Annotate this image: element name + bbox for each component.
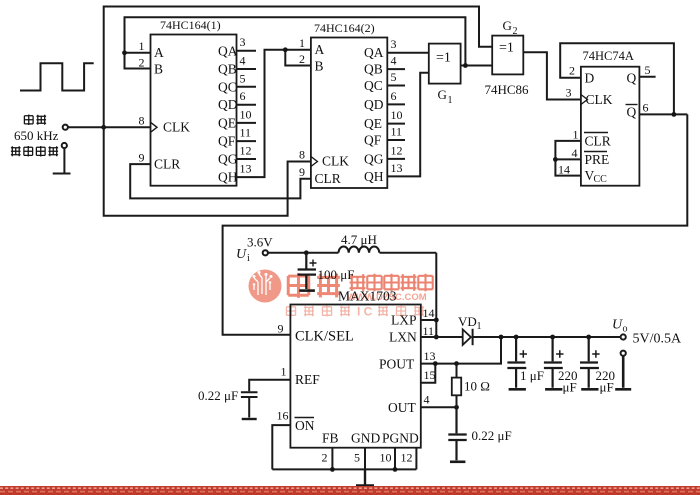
svg-text:12: 12 <box>240 144 252 158</box>
U2 CLK triangle <box>311 157 318 167</box>
U2 output stubs <box>387 69 405 159</box>
wire: clock bus down to U2 CLK pin 8 <box>104 127 311 215</box>
node: PGND bus junction <box>393 467 398 472</box>
svg-text:μF: μF <box>600 380 614 395</box>
svg-text:QG: QG <box>218 152 238 167</box>
svg-text:I C: I C <box>357 305 373 319</box>
svg-text:11: 11 <box>240 126 252 140</box>
label 方波信号 (square wave signal) <box>11 146 58 157</box>
wire: Ui to inductor L1 <box>268 252 436 254</box>
svg-text:0.22 μF: 0.22 μF <box>198 388 238 403</box>
svg-text:i: i <box>247 253 250 264</box>
xor gate G2 <box>492 36 523 75</box>
svg-text:15: 15 <box>424 368 436 382</box>
wire: PGND pin10 lead <box>394 448 396 470</box>
svg-text:QC: QC <box>364 78 383 93</box>
wire: U1 CLR to U2 CLR (pin 9 bus) <box>130 164 311 198</box>
svg-text:A: A <box>315 42 325 57</box>
node: resistor tap <box>454 361 459 366</box>
svg-text:4: 4 <box>572 146 578 160</box>
wire: U2 QA pin3 to G1 upper input <box>387 52 429 54</box>
svg-text:FB: FB <box>322 431 339 446</box>
svg-text:Q: Q <box>627 105 637 120</box>
watermark 电子市场网 text <box>350 274 433 291</box>
svg-text:A: A <box>154 45 164 60</box>
node: PRE tie <box>553 157 558 162</box>
svg-text:QC: QC <box>218 79 237 94</box>
node: C4 junction <box>514 335 519 340</box>
svg-text:74HC164(1): 74HC164(1) <box>160 18 221 32</box>
svg-text:11: 11 <box>423 324 435 338</box>
output return terminal <box>621 351 626 356</box>
input terminal (return) <box>62 143 67 148</box>
svg-text:74HC86: 74HC86 <box>485 82 530 97</box>
svg-text:=1: =1 <box>499 41 514 56</box>
wire: G1 output feedback to U1 A/B <box>125 17 466 68</box>
capacitor C2 0.22uF at OUT <box>448 407 466 462</box>
svg-text:POUT: POUT <box>379 356 415 371</box>
svg-text:2: 2 <box>139 56 145 70</box>
wire: input to U1 CLK <box>68 126 151 128</box>
svg-text:MAX1703: MAX1703 <box>338 289 397 304</box>
svg-text:G: G <box>438 87 447 102</box>
svg-text:QF: QF <box>218 134 236 149</box>
svg-text:QA: QA <box>364 45 384 60</box>
svg-text:6: 6 <box>240 89 246 103</box>
svg-text:5: 5 <box>240 71 246 85</box>
wire: POUT pin13 rail to output node <box>421 337 501 364</box>
svg-text:QH: QH <box>364 169 384 184</box>
flip-flop U3 74HC74A <box>558 49 651 186</box>
wire: U1 QH pin13 to U2 A/B <box>237 50 311 177</box>
wire: FB pin2 lead <box>331 448 333 470</box>
wire: U3 CLR/PRE/Vcc tie <box>555 141 581 176</box>
wire: OUT pin4 stub <box>421 406 457 408</box>
svg-text:QG: QG <box>364 151 384 166</box>
ground: main GND symbol <box>356 469 374 485</box>
node: battery/cap junction <box>304 250 309 255</box>
wire: PGND pin12 lead <box>415 448 417 470</box>
svg-text:8: 8 <box>299 148 305 162</box>
svg-text:3.6V: 3.6V <box>247 235 273 250</box>
svg-text:1: 1 <box>299 36 305 50</box>
svg-text:U: U <box>612 318 623 333</box>
svg-text:6: 6 <box>643 101 649 115</box>
node: U1 A/B tie <box>122 50 127 55</box>
svg-text:16: 16 <box>277 409 289 423</box>
svg-text:PRE: PRE <box>585 152 610 167</box>
shift register U1 74HC164(1) <box>139 18 257 186</box>
C1 ground <box>299 289 315 292</box>
svg-text:CLK: CLK <box>586 92 613 107</box>
wire: clock bus up and over to G2 upper input <box>104 7 493 128</box>
svg-text:1: 1 <box>448 95 453 106</box>
svg-text:1: 1 <box>477 321 482 332</box>
svg-text:REF: REF <box>295 372 320 387</box>
U3 CLK triangle <box>581 95 588 105</box>
svg-text:4: 4 <box>240 54 246 68</box>
svg-text:o: o <box>623 324 628 335</box>
svg-text:QD: QD <box>218 97 238 112</box>
node: clock junction <box>101 125 106 130</box>
svg-text:GND: GND <box>351 431 380 446</box>
node: U2 A/B tie <box>283 47 288 52</box>
svg-text:ON: ON <box>295 418 315 433</box>
svg-text:100 μF: 100 μF <box>318 267 355 282</box>
capacitor C5 220uF <box>544 337 564 389</box>
U1 CLK triangle <box>151 122 158 132</box>
svg-text:6: 6 <box>391 89 397 103</box>
wire: U2 QH pin13 to G1 lower input <box>387 73 429 177</box>
svg-text:QE: QE <box>364 116 382 131</box>
svg-text:74HC164(2): 74HC164(2) <box>314 21 375 35</box>
svg-text:1 μF: 1 μF <box>520 368 544 383</box>
svg-text:μF: μF <box>563 380 577 395</box>
node: FB bus junction <box>330 467 335 472</box>
node: POUT riser junction <box>499 335 504 340</box>
wire: U3 D feedback from Qbar <box>560 43 674 114</box>
svg-text:CLR: CLR <box>315 171 341 186</box>
resistor R1 10 ohm <box>452 364 461 408</box>
svg-text:4.7 μH: 4.7 μH <box>341 232 377 247</box>
svg-text:CLR: CLR <box>154 157 180 172</box>
svg-text:10: 10 <box>391 108 403 122</box>
svg-text:9: 9 <box>299 165 305 179</box>
svg-text:QD: QD <box>364 97 384 112</box>
wire: REF pin1 to C3 <box>249 380 290 418</box>
wire: diode cathode to output terminal <box>473 336 621 338</box>
svg-text:74HC74A: 74HC74A <box>583 49 634 63</box>
C2 ground <box>450 460 465 463</box>
capacitor C3 0.22uF at REF <box>241 380 291 419</box>
watermark 全球最大IC采购网 text <box>286 305 424 319</box>
wire: GND pin5 lead <box>364 448 366 470</box>
output terminal Uo <box>621 334 626 339</box>
capacitor C4 1uF <box>507 337 527 389</box>
U1 output stubs pins 3,4,5,6,10,11,12 <box>237 51 257 159</box>
svg-text:11: 11 <box>391 125 403 139</box>
wire: G2 output to U3 CLK pin 3 <box>523 52 581 99</box>
capacitor C1 100uF <box>298 253 317 291</box>
watermark dzsc logo circle <box>249 270 282 303</box>
svg-text:VD: VD <box>458 314 477 329</box>
svg-text:9: 9 <box>278 322 284 336</box>
svg-text:5: 5 <box>391 70 397 84</box>
svg-text:4: 4 <box>391 54 397 68</box>
svg-text:QE: QE <box>218 115 236 130</box>
svg-text:14: 14 <box>423 306 435 320</box>
svg-text:1: 1 <box>573 128 579 142</box>
svg-text:Q: Q <box>627 71 637 86</box>
wire: U3 Q pin5 stub <box>639 76 655 78</box>
svg-text:QB: QB <box>364 62 383 77</box>
svg-text:14: 14 <box>558 163 570 177</box>
svg-text:G: G <box>503 18 512 33</box>
wire: Qbar down to MAX1703 CLK/SEL <box>223 114 688 334</box>
svg-text:CLR: CLR <box>585 134 611 149</box>
svg-text:CLK: CLK <box>322 154 349 169</box>
diode VD1 <box>463 329 473 345</box>
output return ground <box>615 356 631 390</box>
node: OUT junction <box>454 405 459 410</box>
input terminal (signal) <box>63 125 68 130</box>
wire: POUT pin15 tie <box>421 364 436 383</box>
svg-text:1: 1 <box>281 365 287 379</box>
wire: ON pin16 to ground bus <box>272 425 290 469</box>
svg-text:LXN: LXN <box>389 330 417 345</box>
wire: LXP pin14 stub <box>421 319 437 321</box>
svg-text:2: 2 <box>569 64 575 78</box>
svg-text:9: 9 <box>139 151 145 165</box>
svg-text:CC: CC <box>594 174 608 185</box>
node: LXP tie <box>434 318 439 323</box>
svg-text:3: 3 <box>391 37 397 51</box>
svg-text:QF: QF <box>364 133 382 148</box>
svg-text:B: B <box>315 59 324 74</box>
svg-text:10 Ω: 10 Ω <box>464 379 490 394</box>
svg-text:1: 1 <box>139 39 145 53</box>
C3 ground <box>242 418 257 420</box>
svg-text:0.22 μF: 0.22 μF <box>472 428 512 443</box>
shift register U2 74HC164(2) <box>299 21 405 188</box>
label 输入 (input) <box>24 114 46 125</box>
svg-text:10: 10 <box>240 107 252 121</box>
svg-text:2: 2 <box>513 26 518 37</box>
input square wave symbol <box>20 63 94 90</box>
svg-text:B: B <box>154 62 163 77</box>
svg-text:LXP: LXP <box>391 313 417 328</box>
svg-text:=1: =1 <box>436 51 451 66</box>
svg-text:PGND: PGND <box>382 431 419 446</box>
svg-text:12: 12 <box>401 451 413 465</box>
input return ground <box>53 148 71 173</box>
svg-text:2: 2 <box>299 52 305 66</box>
svg-text:CLK/SEL: CLK/SEL <box>295 329 354 345</box>
svg-text:4: 4 <box>424 393 430 407</box>
svg-text:13: 13 <box>424 349 436 363</box>
svg-text:3: 3 <box>566 86 572 100</box>
watermark 维库 text <box>288 273 340 298</box>
wire: G1 output to G2 lower input <box>461 65 493 67</box>
svg-text:650 kHz: 650 kHz <box>14 128 59 143</box>
xor gate G1 <box>429 44 461 84</box>
node: Qbar junction <box>672 112 677 117</box>
svg-text:13: 13 <box>240 162 252 176</box>
node: C6 junction <box>586 335 591 340</box>
svg-text:D: D <box>585 71 595 86</box>
wire: inductor to LXP/LXN <box>435 253 437 337</box>
C1 plus sign <box>310 260 317 267</box>
svg-text:3: 3 <box>240 35 246 49</box>
svg-text:5V/0.5A: 5V/0.5A <box>633 332 683 347</box>
svg-text:2: 2 <box>322 451 328 465</box>
node: pin15 tie <box>433 361 438 366</box>
svg-text:CLK: CLK <box>163 120 190 135</box>
svg-text:5: 5 <box>354 451 360 465</box>
svg-text:10: 10 <box>380 451 392 465</box>
svg-text:U: U <box>236 247 247 262</box>
node: G1 output junction <box>463 63 468 68</box>
svg-text:5: 5 <box>645 63 651 77</box>
svg-text:12: 12 <box>391 143 403 157</box>
svg-text:8: 8 <box>139 114 145 128</box>
svg-text:OUT: OUT <box>388 400 416 415</box>
svg-text:QA: QA <box>218 43 238 58</box>
input terminal Ui 3.6V <box>263 250 268 255</box>
node: C5 junction <box>550 335 555 340</box>
capacitor C6 220uF <box>580 337 600 389</box>
inductor L1 4.7uH <box>339 246 380 252</box>
banner bottom red bar <box>0 486 700 495</box>
svg-text:QH: QH <box>218 170 238 185</box>
svg-text:13: 13 <box>391 161 403 175</box>
wire: U3 Qbar pin6 output <box>639 113 687 115</box>
wire: LXN pin11 to diode VD1 <box>421 336 463 338</box>
IC U4 MAX1703 <box>277 289 436 465</box>
node: LXN tie <box>434 335 439 340</box>
wire: bottom ground bus <box>272 468 416 470</box>
svg-text:QB: QB <box>218 62 237 77</box>
